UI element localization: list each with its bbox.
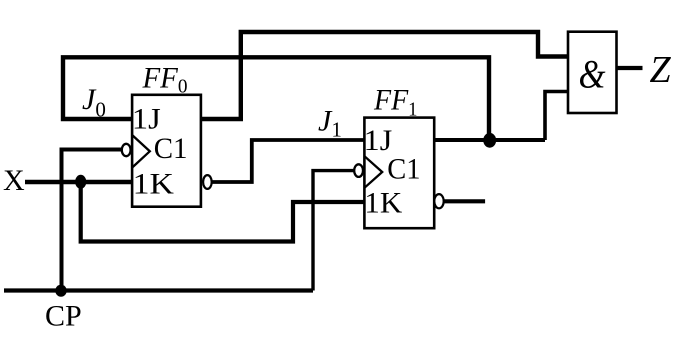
- wire FF0 Qbar to FF1 1J input: [212, 140, 365, 182]
- svg-text:CP: CP: [45, 300, 82, 333]
- node CP junction dot: [55, 285, 66, 297]
- wire X to FF1 1K input: [81, 182, 364, 242]
- wire FF1 Q feedback to FF0 1J input: [63, 57, 489, 140]
- wire to AND gate lower input: [545, 92, 568, 141]
- flip-flop FF1 Qbar bubble: [434, 194, 443, 208]
- wire FF1 Qbar stub: [444, 199, 485, 203]
- flip-flop FF1 clock triangle: [365, 156, 383, 187]
- svg-text:C1: C1: [387, 152, 420, 185]
- wire FF1 Q output: [434, 138, 545, 142]
- flip-flop FF0 Qbar bubble: [203, 175, 212, 189]
- svg-text:&: &: [579, 52, 606, 97]
- flip-flop FF0 clock bubble: [122, 144, 131, 156]
- flip-flop FF0 box: [132, 95, 201, 207]
- wire CP line: [4, 288, 313, 292]
- svg-text:C1: C1: [154, 132, 188, 165]
- wire CP to FF1 C1: [313, 171, 355, 291]
- wire CP to FF0 C1: [62, 150, 122, 291]
- flip-flop FF0 clock triangle: [132, 135, 150, 168]
- svg-text:1K: 1K: [364, 187, 402, 220]
- node Q1 junction dot: [483, 133, 496, 148]
- svg-text:1J: 1J: [132, 103, 161, 136]
- svg-text:Z: Z: [650, 49, 672, 91]
- AND gate U1 box: [568, 32, 617, 113]
- wire X input line: [25, 180, 132, 184]
- svg-text:X: X: [3, 164, 25, 197]
- svg-text:1K: 1K: [133, 167, 175, 200]
- node X junction dot: [75, 175, 86, 189]
- wire AND gate output Z: [617, 66, 643, 70]
- flip-flop FF1 clock bubble: [354, 164, 363, 177]
- flip-flop FF1 box: [364, 118, 434, 229]
- wire FF0 Q output to AND gate upper input: [201, 32, 568, 119]
